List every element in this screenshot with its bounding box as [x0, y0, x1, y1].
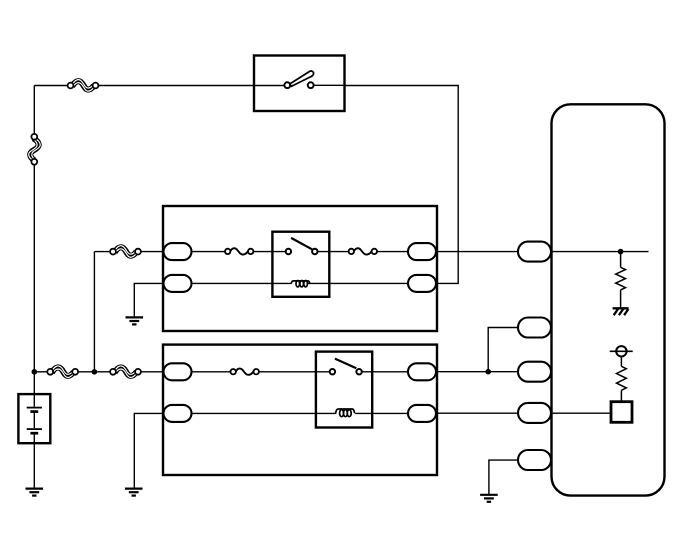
K2 inner relay box	[316, 352, 372, 428]
wire K1 to module pin 1	[436, 251, 519, 253]
fuse f2 (K1 right)	[349, 248, 377, 254]
K2 relay contact	[330, 359, 362, 375]
module M1 outline	[552, 104, 665, 495]
ground G2	[126, 317, 144, 324]
wire K2 to module pins 2,3	[436, 328, 519, 372]
relay box K1	[163, 206, 437, 331]
K2 connector pins	[164, 363, 437, 422]
chassis ground	[613, 308, 629, 315]
junction dot K2 output	[485, 369, 491, 375]
wire riser to relay K1	[94, 252, 164, 372]
fusible link F5	[110, 246, 141, 257]
module connector pins	[518, 242, 551, 470]
K2 internal wires	[192, 372, 408, 414]
wire switch to module	[345, 86, 459, 284]
wire K2 ground branch	[134, 413, 164, 488]
K1 connector pins	[164, 243, 437, 292]
junction dot riser	[92, 369, 98, 375]
K1 inner relay box	[272, 232, 329, 297]
resistor R2	[617, 357, 627, 402]
ground G3	[125, 489, 143, 496]
fuse f1 (K1 left)	[225, 248, 253, 254]
K1 relay contact	[286, 238, 318, 254]
module internal wire pin1	[551, 251, 649, 253]
switch box SW1	[254, 56, 345, 112]
relay box K2	[163, 345, 437, 475]
junction dot battery bus	[32, 369, 38, 375]
wire K1 ground branch	[134, 283, 164, 316]
ignition switch contacts	[284, 71, 313, 88]
fusible link F4	[110, 366, 141, 377]
ground G1 battery	[26, 489, 44, 496]
wire bus to relay K2	[34, 371, 164, 373]
K1 relay coil	[291, 281, 309, 287]
wire top feed	[34, 84, 344, 86]
fusible link F1	[68, 80, 99, 91]
sensor circle	[610, 346, 633, 356]
ground G4	[480, 495, 498, 502]
fuse f3 (K2)	[231, 369, 259, 375]
battery B1	[18, 394, 50, 488]
K1 internal wires	[192, 252, 408, 284]
fusible link F3	[47, 366, 78, 377]
wire module pin 5 ground branch	[489, 460, 518, 494]
actuator box	[611, 402, 632, 423]
fusible link F2	[29, 134, 40, 165]
resistor R1	[616, 252, 626, 308]
K2 relay coil	[336, 409, 355, 417]
junction dot module	[618, 249, 624, 255]
wire battery vertical	[33, 86, 35, 395]
wire K2 coil to actuator	[436, 412, 611, 414]
